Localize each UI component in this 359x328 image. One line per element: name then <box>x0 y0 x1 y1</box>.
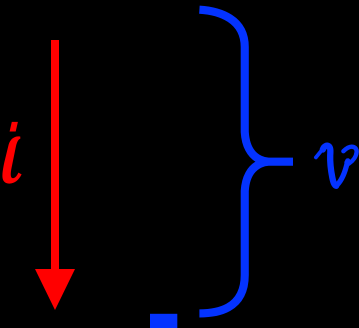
minus terminal (cropped blue minus sign) <box>150 314 177 328</box>
label v (voltage) <box>316 146 357 186</box>
label i (current) <box>2 122 21 184</box>
brace v (blue voltage brace) <box>199 10 293 314</box>
current arrow i (red reference arrow) <box>35 40 75 310</box>
